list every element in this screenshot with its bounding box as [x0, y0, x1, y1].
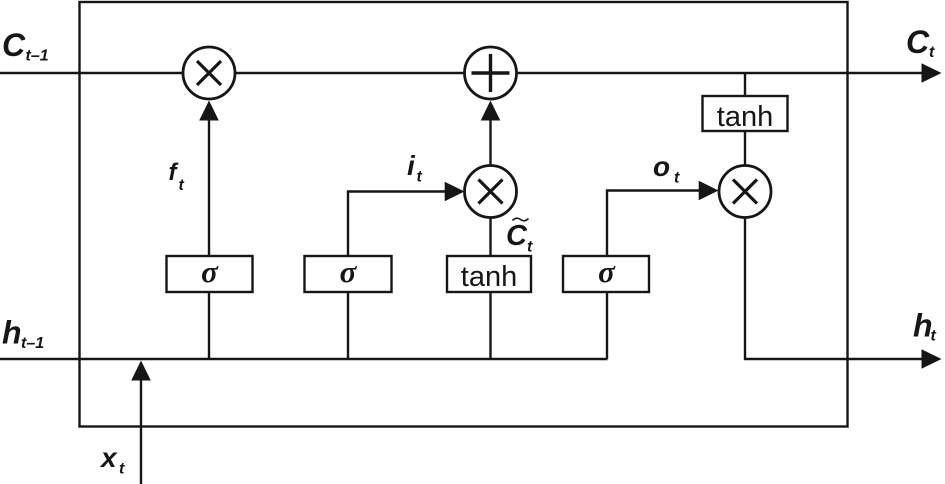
arrowhead o_t into multiply node 3	[699, 181, 719, 201]
svg-text:t: t	[929, 44, 935, 61]
svg-text:i: i	[407, 150, 416, 181]
svg-text:σ: σ	[598, 254, 616, 289]
gate box tanh output	[703, 96, 788, 133]
svg-text:t: t	[179, 177, 185, 194]
svg-text:t: t	[119, 461, 125, 478]
wire sigma3 to h-line corner	[606, 292, 608, 359]
multiply node 3 (output gate product)	[719, 166, 771, 218]
arrowhead h_t out	[922, 349, 942, 369]
gate box sigma2 (input gate)	[305, 254, 392, 292]
wire tanh-mid to h-line	[489, 292, 491, 359]
wire sigma1 to h-line	[208, 292, 210, 359]
svg-text:t: t	[417, 169, 423, 186]
cell boundary box	[80, 2, 848, 427]
svg-text:σ: σ	[201, 254, 219, 289]
arrowhead into add node	[481, 101, 501, 121]
svg-text:t: t	[527, 239, 533, 256]
svg-text:o: o	[653, 151, 670, 182]
svg-text:t–1: t–1	[26, 48, 49, 65]
gate box sigma3 (output gate)	[563, 254, 649, 292]
svg-text:C: C	[506, 220, 528, 252]
wire sigma1 to multiply node 1	[208, 119, 210, 256]
wire h-line (hidden state in)	[0, 358, 608, 360]
wire tanh-top to multiply node 3	[744, 131, 746, 167]
multiply node 2 (input gate product)	[465, 166, 517, 218]
svg-text:x: x	[99, 442, 118, 473]
svg-text:t: t	[674, 170, 680, 187]
svg-text:h: h	[2, 315, 22, 351]
svg-text:σ: σ	[340, 254, 358, 289]
gate box tanh candidate	[447, 256, 531, 293]
label h_t	[913, 308, 937, 345]
label i_t	[407, 150, 423, 186]
label x_t	[99, 442, 125, 478]
arrowhead i_t into multiply node 2	[445, 182, 465, 202]
wire multiply node 2 to add node	[489, 119, 491, 167]
label o_t	[653, 151, 680, 187]
wire C-line (cell state)	[0, 72, 924, 74]
svg-text:t: t	[931, 328, 937, 345]
wire C-line to tanh-top	[744, 73, 746, 96]
label h_t-1	[2, 315, 44, 353]
wire sigma2 to h-line	[347, 292, 349, 359]
svg-text:tanh: tanh	[717, 101, 773, 133]
multiply node 1 (forget gate product)	[183, 47, 235, 99]
wire multiply node 3 to h_t out	[745, 217, 924, 360]
label C_t-1	[2, 27, 49, 65]
arrowhead x_t into h-line	[131, 361, 151, 381]
label f_t	[169, 159, 185, 194]
add node (cell state update)	[465, 47, 517, 99]
svg-text:t–1: t–1	[21, 335, 44, 352]
label C-tilde_t (candidate)	[506, 218, 533, 255]
svg-text:C: C	[906, 24, 930, 60]
label C_t	[906, 24, 935, 61]
svg-text:f: f	[169, 159, 179, 186]
gate box sigma1 (forget gate)	[167, 254, 253, 292]
arrowhead f_t into multiply node 1	[199, 101, 219, 121]
svg-text:tanh: tanh	[461, 261, 517, 293]
wire i_t path sigma2 to multiply node 2	[348, 192, 446, 257]
wire x_t input	[140, 379, 142, 484]
wire o_t path sigma3 to multiply node 3	[607, 191, 700, 257]
svg-text:C: C	[2, 27, 26, 63]
wire tanh-mid to multiply node 2	[489, 218, 491, 257]
arrowhead C_t out	[922, 63, 942, 83]
